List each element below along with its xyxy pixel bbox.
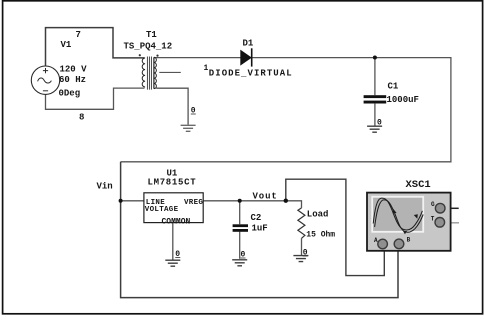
svg-text:Vin: Vin: [97, 182, 113, 192]
resistor Load zigzag: [298, 208, 305, 238]
svg-text:VREG: VREG: [184, 199, 203, 207]
ground symbol at Load: [293, 256, 308, 262]
wire V1 top loop to transformer primary top: [46, 28, 145, 67]
oscilloscope XSC1 body: [367, 193, 451, 251]
node C1 junction dot: [373, 56, 377, 60]
svg-text:LM7815CT: LM7815CT: [148, 178, 197, 188]
wire U1 output to Vout and Load: [203, 201, 301, 208]
ground symbol at transformer secondary: [181, 125, 196, 131]
oscilloscope connector B: [394, 239, 404, 249]
svg-text:VOLTAGE: VOLTAGE: [145, 206, 179, 214]
svg-text:T: T: [431, 216, 435, 223]
AC source V1: [31, 66, 59, 94]
oscilloscope trace arrow marker 3: [403, 231, 407, 234]
wire diode cathode to C1 node and right drop to Vin line: [121, 58, 451, 162]
transformer T1 secondary winding: [154, 57, 156, 88]
oscilloscope waveform trace 1: [373, 198, 422, 230]
diode D1 cathode bar: [251, 48, 253, 66]
svg-text:XSC1: XSC1: [406, 179, 431, 191]
svg-text:7: 7: [76, 30, 81, 40]
capacitor C2 plates: [233, 224, 248, 227]
diode D1: [241, 50, 252, 65]
svg-text:T1: T1: [146, 30, 157, 40]
svg-text:DIODE_VIRTUAL: DIODE_VIRTUAL: [209, 69, 293, 79]
wire C1 bottom to ground: [374, 104, 376, 126]
voltage regulator U1 box: [144, 193, 203, 223]
svg-text:G: G: [431, 201, 435, 208]
oscilloscope connector T: [435, 218, 445, 228]
wire secondary top to diode anode: [155, 57, 241, 59]
ground symbol at U1 common: [165, 260, 180, 266]
oscilloscope connector G: [435, 203, 445, 213]
wire Vout tap up-over-down to scope channel A: [286, 179, 385, 275]
wire secondary bottom to ground: [156, 88, 188, 125]
wire C1 branch from node: [374, 58, 376, 96]
svg-text:C2: C2: [251, 213, 262, 223]
wire V1 bottom loop to transformer primary bottom: [46, 88, 145, 109]
svg-text:COMMON: COMMON: [162, 218, 191, 227]
svg-text:A: A: [374, 237, 378, 244]
node Vout junction dot: [284, 199, 288, 203]
wire U1 common to ground: [172, 223, 174, 260]
node C2 junction dot: [238, 199, 242, 203]
svg-text:C1: C1: [388, 82, 399, 92]
oscilloscope screen white frame: [371, 196, 424, 233]
svg-text:V1: V1: [61, 40, 72, 50]
oscilloscope connector A: [378, 239, 388, 249]
svg-text:B: B: [407, 237, 411, 244]
wire C2 bottom to ground: [239, 232, 241, 259]
svg-text:D1: D1: [243, 39, 254, 49]
svg-text:Vout: Vout: [253, 192, 278, 202]
svg-text:1: 1: [204, 64, 209, 73]
svg-text:120 V: 120 V: [60, 65, 88, 75]
oscilloscope waveform trace 2: [375, 200, 424, 232]
wire Load bottom to ground: [301, 238, 303, 255]
transformer polarity dots: [139, 54, 141, 56]
ground symbol at C2: [232, 260, 247, 266]
svg-text:15 Ohm: 15 Ohm: [306, 231, 335, 240]
svg-text:1000uF: 1000uF: [387, 95, 419, 105]
svg-text:1uF: 1uF: [252, 224, 268, 234]
svg-text:Load: Load: [307, 210, 329, 220]
transformer T1 core lines: [147, 57, 151, 90]
oscilloscope screen: [373, 198, 422, 231]
ground symbol at C1: [367, 126, 382, 132]
oscilloscope trace arrow marker 2: [414, 214, 418, 219]
oscilloscope trace arrow marker 1: [393, 209, 397, 213]
wire scope T terminal stub: [445, 222, 459, 224]
svg-text:60 Hz: 60 Hz: [59, 75, 86, 85]
wire Vin to U1 input: [121, 200, 144, 202]
svg-text:0Deg: 0Deg: [59, 89, 81, 99]
wire scope G terminal stub: [445, 207, 459, 209]
wire C2 branch from Vout line: [239, 201, 241, 224]
transformer T1 primary winding: [142, 58, 145, 87]
capacitor C1 plates: [364, 95, 387, 98]
svg-text:8: 8: [79, 113, 84, 123]
svg-text:TS_PQ4_12: TS_PQ4_12: [124, 42, 173, 52]
wire transformer center tap stub: [159, 71, 181, 73]
wire Vin vertical down to bottom loop: [121, 162, 398, 298]
node Vin junction dot: [119, 199, 123, 203]
